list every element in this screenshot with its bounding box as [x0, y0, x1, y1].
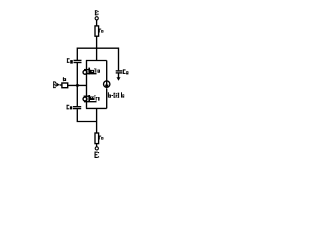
junction symbol 2 (emitter junction)	[83, 95, 96, 102]
collector branch wire upper	[106, 61, 108, 82]
capacitor Ce plate 2	[73, 108, 81, 110]
label Ce	[67, 105, 73, 110]
label Ib (junction 1 current)	[94, 68, 100, 72]
emitter column wire	[96, 108, 98, 133]
node +Ek label	[95, 10, 99, 15]
label h21eIb	[108, 92, 124, 97]
resistor Rk	[95, 26, 99, 36]
input source box	[62, 83, 68, 88]
wire terminal to Rk	[96, 20, 98, 26]
terminal Ek circle	[95, 17, 98, 20]
capacitor Cb plate 1	[74, 59, 82, 61]
input wire to base branch	[68, 84, 87, 86]
wire Rk to collector node	[96, 36, 98, 60]
wire Ce down to bottom rail	[77, 109, 97, 121]
label Rk	[99, 29, 104, 33]
inner box top edge	[86, 60, 107, 62]
current source inner arrow	[106, 81, 108, 85]
label Ie (junction 2 current)	[95, 95, 100, 101]
capacitor Ck plate 1	[116, 70, 123, 72]
top rail wire	[77, 48, 118, 70]
capacitor Ck plate 2	[116, 72, 123, 74]
collector branch wire lower	[106, 89, 108, 109]
current source h21e*Ib circle	[104, 81, 110, 87]
emitter line	[86, 107, 107, 109]
bottom terminal circle	[95, 147, 98, 150]
Ck ground arrowhead	[117, 77, 121, 81]
label Re	[99, 136, 104, 140]
capacitor Ce plate 1	[73, 106, 81, 108]
bottom terminal label E	[95, 152, 100, 158]
wire Re to bottom terminal	[96, 144, 98, 147]
Ck ground arrow stem	[118, 73, 120, 77]
label above input box	[63, 77, 66, 81]
base branch wire	[86, 61, 88, 108]
input arrow	[56, 83, 59, 87]
input wire arrow to box	[60, 84, 62, 86]
input source label B	[53, 81, 56, 88]
junction symbol 1 (base junction)	[83, 68, 96, 75]
label Cb	[67, 58, 73, 63]
junction dot input/Cb column	[76, 84, 79, 87]
resistor Re	[95, 133, 99, 144]
wire Cb to Ce	[76, 63, 78, 106]
capacitor Cb plate 2	[74, 62, 82, 64]
label Ck	[123, 69, 128, 74]
